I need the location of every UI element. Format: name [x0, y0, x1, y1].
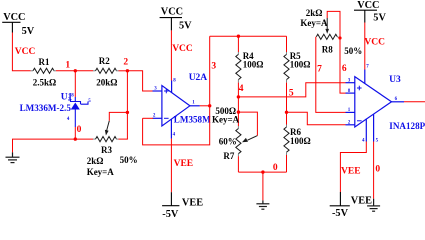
svg-text:LM358M: LM358M	[174, 115, 211, 125]
potentiometer R3 2kΩ	[93, 137, 119, 142]
svg-text:R3: R3	[101, 145, 112, 155]
svg-text:VCC: VCC	[15, 47, 36, 57]
resistor R6	[284, 112, 289, 172]
svg-text:3: 3	[211, 62, 216, 72]
U2A minus sign	[164, 117, 169, 119]
potentiometer R8 2kΩ	[316, 34, 340, 39]
R7 wiper arrow	[242, 136, 257, 143]
resistor R2	[93, 68, 119, 73]
ground symbol (right)	[367, 199, 380, 212]
svg-text:-5V: -5V	[332, 208, 349, 219]
svg-text:0: 0	[273, 163, 278, 173]
junction rail under U1	[74, 137, 77, 140]
wire net 3 top rail	[210, 35, 287, 37]
svg-text:R8: R8	[322, 45, 333, 55]
junction center rail	[261, 170, 264, 173]
svg-text:U2A: U2A	[189, 73, 208, 83]
svg-text:5V: 5V	[22, 26, 35, 37]
wire R7 wiper loop	[238, 112, 257, 136]
wire net 5 (bridge right output to U3 -in)	[287, 112, 346, 125]
wire net 1 (R1 to R2, junction to U1)	[56, 71, 93, 97]
wire R3 wiper to node 2 column	[109, 112, 128, 139]
svg-text:R2: R2	[99, 56, 110, 66]
wire net 0 (U1 anode to ground rail)	[74, 127, 76, 139]
svg-text:Key=A: Key=A	[212, 114, 240, 124]
U2A plus sign	[164, 89, 169, 94]
R8 wiper arrow	[325, 18, 329, 34]
wire U2A pin 4 to VEE	[170, 139, 172, 193]
svg-text:100Ω: 100Ω	[290, 60, 311, 70]
svg-text:R1: R1	[39, 57, 50, 67]
R3 wiper arrow	[105, 121, 109, 136]
junction R3 wiper	[126, 111, 129, 114]
wire U2A feedback (output to inverting input)	[143, 36, 210, 145]
svg-text:Key=A: Key=A	[87, 167, 115, 177]
svg-text:VCC: VCC	[161, 6, 183, 17]
wire U3 pin 5 to ground	[373, 142, 375, 199]
U3 minus sign	[357, 120, 362, 122]
svg-text:7: 7	[317, 64, 322, 74]
svg-text:2kΩ: 2kΩ	[87, 156, 104, 166]
svg-text:6: 6	[342, 64, 347, 74]
svg-text:VEE: VEE	[341, 166, 361, 176]
junction R8 wiper-terminal	[338, 36, 341, 39]
junction R7 wiper	[237, 110, 240, 113]
junction R4 top	[237, 35, 240, 38]
svg-text:Key=A: Key=A	[300, 18, 328, 28]
svg-text:1: 1	[65, 61, 70, 71]
wire VCC to U2A pin 8	[170, 30, 172, 80]
wire net 2 (R2 to U2A +in and down to R3 wiper)	[119, 71, 154, 139]
wire ground rail center	[238, 172, 286, 200]
svg-text:100Ω: 100Ω	[290, 136, 311, 146]
svg-text:100Ω: 100Ω	[243, 60, 264, 70]
wire R8 wiper and right terminal (net 6)	[327, 11, 345, 93]
power symbol VEE (right, -5V)	[330, 192, 350, 206]
svg-text:VCC: VCC	[3, 12, 25, 23]
wire U3 pin 4 to VEE	[340, 142, 366, 193]
junction node 2	[126, 69, 129, 72]
power symbol VCC (right, 5V)	[354, 10, 377, 22]
ground symbol (center)	[256, 200, 269, 209]
svg-text:VEE: VEE	[351, 196, 372, 207]
resistor R4	[236, 36, 241, 97]
svg-text:LM336M-2.5: LM336M-2.5	[20, 103, 72, 113]
svg-text:60%: 60%	[219, 137, 237, 147]
op-amp U2A LM358M	[153, 81, 200, 139]
svg-text:5V: 5V	[373, 13, 386, 24]
svg-text:INA128P: INA128P	[389, 121, 425, 131]
svg-text:20kΩ: 20kΩ	[96, 77, 117, 87]
junction node 1	[74, 69, 77, 72]
power symbol VCC (left, 5V)	[2, 22, 20, 32]
voltage reference U1 LM336M-2.5	[71, 97, 89, 127]
wire R8 left terminal (net 7)	[316, 37, 346, 113]
svg-text:4: 4	[239, 84, 244, 94]
instrumentation amp U3 INA128P	[346, 70, 405, 142]
svg-text:U3: U3	[389, 75, 401, 85]
svg-text:2: 2	[123, 58, 128, 68]
wire VCC to U3 pin 7	[364, 23, 366, 70]
resistor R5	[284, 36, 289, 112]
resistor R1	[31, 68, 57, 73]
svg-text:2.5kΩ: 2.5kΩ	[33, 77, 56, 87]
svg-text:5V: 5V	[179, 21, 192, 32]
wire net VCC to R1 row	[12, 33, 30, 71]
svg-text:50%: 50%	[120, 155, 138, 165]
junction node 4	[237, 95, 240, 98]
wire U2A output	[200, 105, 210, 107]
svg-text:VEE: VEE	[182, 198, 203, 209]
svg-text:-5V: -5V	[162, 209, 179, 219]
svg-text:R7: R7	[223, 151, 234, 161]
svg-text:0: 0	[375, 165, 380, 175]
svg-text:VCC: VCC	[364, 38, 385, 48]
power symbol VCC (middle, 5V)	[160, 18, 182, 31]
U3 plus sign	[357, 86, 362, 91]
wire net 4 (bridge left output to U3 +in)	[238, 83, 345, 97]
junction U2A output node 3	[208, 104, 211, 107]
wire U3 output net	[404, 101, 425, 103]
svg-text:VCC: VCC	[357, 0, 379, 11]
wire ground rail left	[13, 139, 94, 152]
svg-text:2kΩ: 2kΩ	[306, 8, 323, 18]
potentiometer R7 500Ω	[236, 97, 241, 172]
power symbol VEE (middle, -5V)	[162, 192, 179, 206]
svg-text:50%: 50%	[344, 46, 362, 56]
junction node 5	[285, 111, 288, 114]
ground symbol (left)	[6, 152, 20, 162]
svg-text:0: 0	[77, 125, 82, 135]
svg-text:VCC: VCC	[172, 44, 193, 54]
svg-text:VEE: VEE	[174, 159, 194, 169]
